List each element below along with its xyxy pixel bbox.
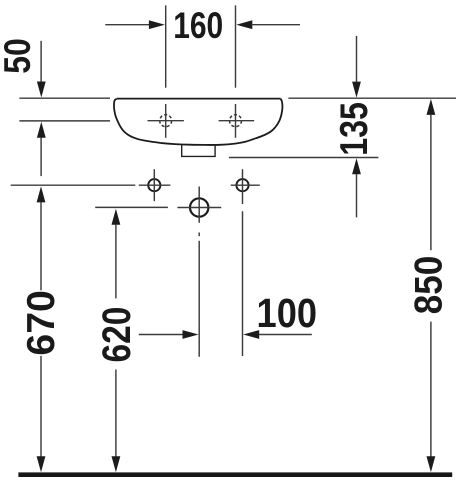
dimension 670 line	[37, 186, 46, 202]
drain hole	[190, 198, 208, 216]
dimension 160 arrows	[105, 24, 150, 26]
floor line	[18, 472, 452, 477]
centre line below drain	[198, 233, 200, 237]
extension line tap level left	[19, 120, 110, 122]
dimension 100 arrows	[139, 334, 183, 336]
extension line trap bottom level	[229, 157, 379, 159]
tap hole right (dashed)	[230, 115, 242, 127]
dimension 160 extension lines	[165, 5, 167, 87]
svg-text:850: 850	[407, 256, 450, 315]
svg-text:160: 160	[173, 4, 223, 46]
dimension 135 line	[356, 36, 358, 82]
svg-text:670: 670	[20, 290, 63, 355]
washbasin outline	[114, 99, 282, 145]
extension line fixing hole level	[11, 184, 136, 186]
svg-text:100: 100	[257, 290, 317, 336]
fixing hole right	[236, 179, 248, 191]
fixing hole left	[148, 179, 160, 191]
extension line rim level left	[19, 97, 110, 99]
drain trap cover	[182, 144, 215, 156]
centre line below right fixing hole	[242, 211, 244, 356]
dimension 850 line	[427, 99, 436, 115]
svg-text:135: 135	[333, 102, 376, 156]
extension line rim level right	[288, 97, 456, 99]
svg-text:620: 620	[94, 307, 139, 363]
dimension 620 line	[112, 209, 121, 225]
extension line drain level	[95, 206, 168, 208]
dimension 50 line	[40, 41, 42, 82]
svg-text:50: 50	[0, 38, 38, 74]
tap hole left (dashed)	[160, 115, 172, 127]
